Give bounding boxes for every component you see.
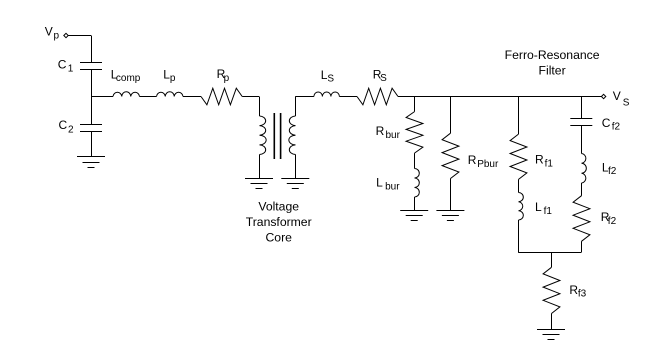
- wire Lp to Rp: [183, 96, 201, 98]
- svg-text:R: R: [468, 153, 477, 167]
- transformer secondary winding: [295, 97, 297, 117]
- wire node to Lcomp: [91, 96, 113, 98]
- svg-text:f3: f3: [578, 289, 587, 300]
- svg-text:C: C: [602, 116, 611, 130]
- svg-text:f2: f2: [612, 122, 621, 133]
- svg-text:Pbur: Pbur: [477, 159, 499, 170]
- resistor Rf1: [510, 134, 527, 179]
- ground below Rf3: [537, 329, 565, 331]
- transformer primary winding: [260, 116, 267, 155]
- wire bottom connector: [518, 252, 581, 254]
- wire Lf2 to Rf2: [581, 183, 583, 196]
- svg-text:V: V: [613, 89, 621, 103]
- wire Rf2 to bottom connector: [581, 241, 583, 252]
- resistor Rf3: [543, 267, 560, 313]
- svg-text:L: L: [535, 200, 542, 214]
- svg-text:R: R: [376, 124, 385, 138]
- inductor Lbur: [415, 169, 420, 198]
- resistor Rp: [201, 88, 242, 105]
- resistor RPbur: [442, 133, 459, 178]
- inductor Lp: [157, 92, 184, 97]
- ground below RPbur: [436, 210, 464, 212]
- svg-text:R: R: [535, 153, 544, 167]
- wire Rp to primary winding: [242, 96, 259, 98]
- ground below secondary winding: [281, 178, 309, 180]
- svg-text:Core: Core: [265, 231, 292, 245]
- svg-text:p: p: [54, 30, 60, 41]
- inductor Lf1: [519, 193, 524, 221]
- svg-text:f1: f1: [544, 206, 553, 217]
- svg-text:Voltage: Voltage: [258, 200, 299, 214]
- svg-text:p: p: [170, 73, 176, 84]
- svg-text:f2: f2: [608, 166, 617, 177]
- terminal Vp: [64, 33, 68, 37]
- wire Lf1 to bottom connector: [518, 220, 520, 252]
- wire from Vp terminal to C1: [68, 35, 91, 37]
- resistor Rbur: [406, 112, 423, 154]
- wire node to Rf1: [518, 97, 520, 135]
- svg-text:bur: bur: [386, 130, 401, 141]
- transformer core: [274, 113, 276, 159]
- wire Lcomp to Lp: [140, 96, 157, 98]
- svg-text:2: 2: [68, 124, 74, 135]
- terminal Vs: [601, 94, 605, 98]
- svg-text:C: C: [59, 118, 68, 132]
- ground below Lbur: [400, 210, 428, 212]
- svg-text:f2: f2: [608, 216, 617, 227]
- wire Rf3 to ground: [551, 314, 553, 330]
- resistor Rf2: [573, 196, 590, 242]
- wire primary winding to ground: [259, 155, 261, 179]
- wire Rbur to Lbur: [414, 153, 416, 168]
- wire secondary winding to ground: [295, 155, 297, 179]
- capacitor C1: [80, 62, 102, 64]
- wire Rf1 to Lf1: [518, 179, 520, 192]
- svg-text:f1: f1: [545, 158, 554, 169]
- wire Cf2 to Lf2: [581, 126, 583, 154]
- inductor Ls: [314, 92, 340, 97]
- inductor Lcomp: [113, 92, 140, 97]
- svg-text:bur: bur: [385, 181, 400, 192]
- svg-text:Transformer: Transformer: [246, 215, 312, 229]
- svg-text:C: C: [58, 58, 67, 72]
- wire node to RPbur: [450, 97, 452, 134]
- wire secondary to Ls: [295, 96, 314, 98]
- svg-text:V: V: [45, 25, 53, 39]
- wire Ls to Rs: [339, 96, 357, 98]
- resistor Rs: [357, 88, 398, 105]
- wire RPbur to ground: [450, 179, 452, 211]
- svg-text:Ferro-Resonance: Ferro-Resonance: [505, 48, 600, 62]
- svg-text:S: S: [327, 74, 334, 85]
- svg-text:L: L: [376, 176, 383, 190]
- svg-text:S: S: [380, 73, 387, 84]
- ground below primary winding: [245, 178, 273, 180]
- ground below C2: [77, 156, 105, 158]
- wire node to Cf2: [581, 97, 583, 119]
- wire node to Rf3: [551, 252, 553, 267]
- svg-text:comp: comp: [116, 73, 141, 84]
- svg-text:p: p: [224, 73, 230, 84]
- inductor Lf2: [582, 154, 587, 184]
- wire node to Rbur: [414, 97, 416, 112]
- wire Lbur to ground: [414, 197, 416, 210]
- main secondary wire to Vs terminal: [398, 96, 602, 98]
- wire C2 to ground: [91, 131, 93, 157]
- capacitor C2: [80, 124, 102, 126]
- wire C1 to C2 through node: [91, 70, 93, 125]
- capacitor Cf2: [570, 118, 592, 120]
- svg-text:Filter: Filter: [539, 64, 566, 78]
- svg-text:1: 1: [68, 64, 74, 75]
- svg-text:S: S: [623, 97, 630, 108]
